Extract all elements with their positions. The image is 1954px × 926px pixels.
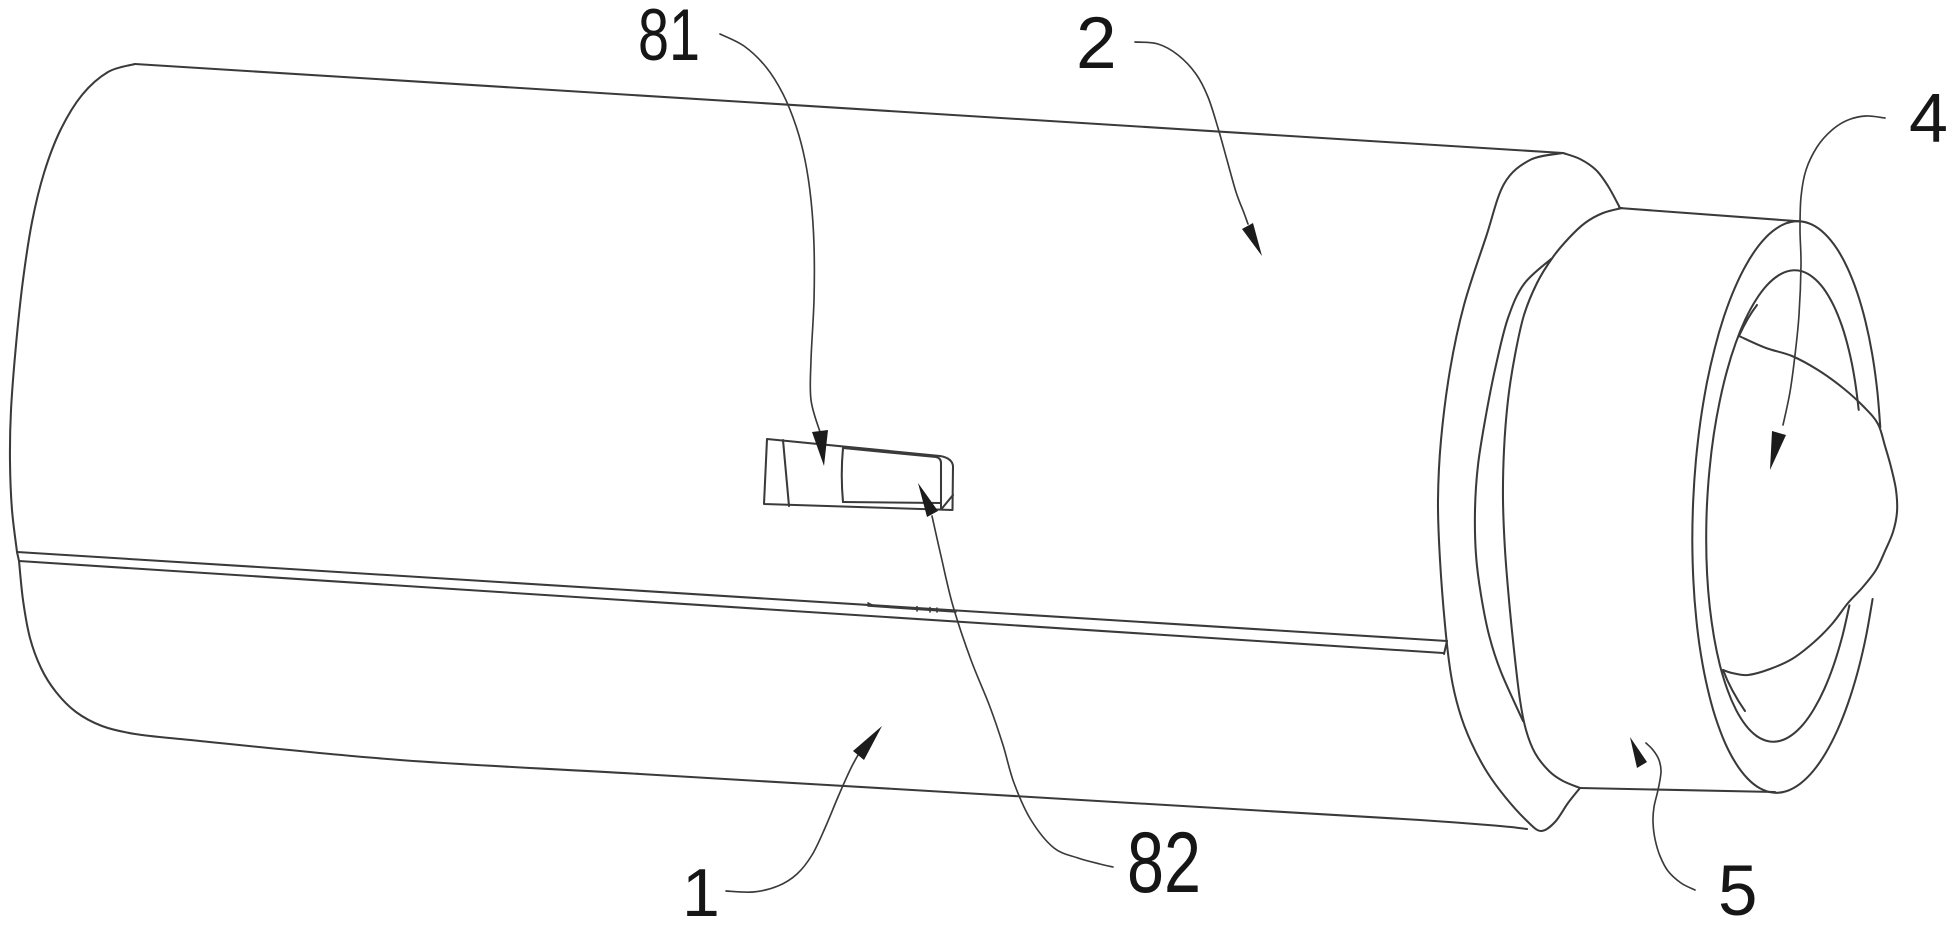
svg-text:5: 5 <box>1718 852 1758 926</box>
leader line for label 81 <box>720 34 820 432</box>
leader line for label 5 <box>1646 743 1695 890</box>
slot corner diagonal <box>942 495 954 509</box>
slot parting-line mark <box>868 603 956 612</box>
wire seam left end tick <box>17 552 19 561</box>
step ellipse visible lens arc <box>1475 259 1551 721</box>
wire seam right end tick <box>1444 641 1447 654</box>
slot 81 left divider <box>783 440 789 506</box>
wire bottom edge of cylinder body 1 <box>180 739 1527 829</box>
button 82 bottom edge <box>843 502 941 503</box>
ring 5 front inner ellipse <box>1706 270 1859 741</box>
dome base sliver bottom <box>1723 670 1745 711</box>
wire parting seam lower line <box>19 561 1443 653</box>
arrowhead of leader 81 <box>812 430 828 466</box>
ring 5 rear ellipse silhouette <box>1503 208 1622 788</box>
button 82 top and right edges <box>843 448 941 509</box>
leader line for label 4 <box>1783 116 1885 425</box>
wire rear upper-left edge of shell 2 <box>10 64 135 552</box>
wire rear lower-left edge of shell 1 <box>19 561 180 739</box>
button 82 left edge <box>842 448 843 502</box>
leader line for label 82 <box>932 516 1113 867</box>
arrowhead of leader 1 <box>853 726 882 760</box>
arrowhead of leader 4 <box>1770 431 1786 470</box>
arrowhead of leader 5 <box>1630 737 1647 768</box>
cylinder end face outer ellipse right-top arc <box>1563 153 1620 208</box>
dome 4 silhouette <box>1723 336 1897 675</box>
svg-text:2: 2 <box>1076 3 1117 84</box>
cylinder end face outer ellipse left arc <box>1438 153 1580 831</box>
arrowhead of leader 82 <box>918 483 938 517</box>
leader line for label 2 <box>1135 42 1248 224</box>
slot 81 outer outline <box>764 439 953 510</box>
ring 5 front outer ellipse <box>1692 221 1880 793</box>
ring 5 top silhouette line <box>1619 208 1799 221</box>
arrowhead of leader 2 <box>1242 223 1262 256</box>
ring 5 bottom silhouette line <box>1580 788 1775 792</box>
wire parting seam upper line <box>17 552 1447 641</box>
dome base sliver top <box>1739 305 1757 336</box>
wire top edge of cylinder body 2 <box>135 64 1563 153</box>
svg-text:4: 4 <box>1909 79 1948 157</box>
svg-text:81: 81 <box>638 0 700 76</box>
leader line for label 1 <box>726 750 861 892</box>
svg-text:1: 1 <box>682 855 720 926</box>
svg-text:82: 82 <box>1127 815 1201 911</box>
